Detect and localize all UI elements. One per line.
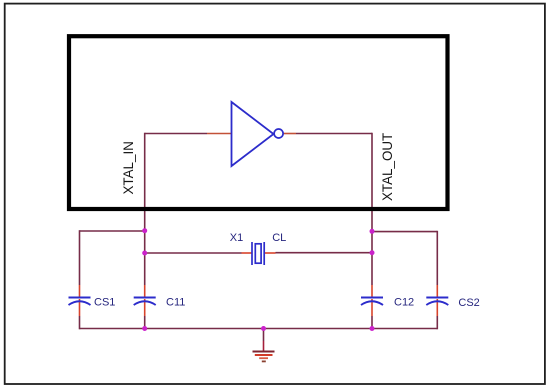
wire CS1 vertical lower: [79, 316, 81, 329]
capacitor CS2: [426, 298, 448, 306]
capacitor C12 pin top: [371, 285, 373, 297]
wire CS2 vertical lower: [436, 316, 438, 329]
capacitor C11: [134, 298, 156, 306]
wire XTAL_IN net: vertical drop from corner through chip edge to C11: [144, 133, 146, 285]
inverter U1 output pin stub: [283, 133, 296, 135]
svg-text:C12: C12: [394, 296, 414, 308]
junction at XTAL_IN / crystal wire: [142, 251, 147, 256]
capacitor CS2 pin top: [436, 285, 438, 297]
svg-text:X1: X1: [230, 232, 243, 244]
wire branch to CS2 top: [372, 231, 437, 233]
capacitor C11 pin top: [144, 285, 146, 297]
capacitor CS1: [69, 298, 91, 306]
wire XTAL_IN net: horizontal from left corner to inverter input: [145, 133, 207, 135]
crystal X1 pin right: [265, 252, 276, 254]
svg-text:XTAL_IN: XTAL_IN: [121, 141, 136, 194]
junction at C11 / bottom bus: [142, 326, 147, 331]
wire crystal right: [276, 252, 373, 254]
wire crystal left: [145, 252, 242, 254]
wire XTAL_OUT net: vertical drop from corner through chip edge to C12: [371, 133, 373, 285]
crystal X1 pin left: [242, 252, 253, 254]
junction at XTAL_OUT / CS2 branch: [370, 229, 375, 234]
wire bottom bus: [80, 328, 438, 330]
wire XTAL_OUT net: horizontal from inverter output to right corner: [296, 133, 372, 135]
svg-text:CL: CL: [272, 232, 286, 244]
junction at ground / bottom bus: [261, 326, 266, 331]
chip boundary box: [69, 36, 448, 209]
inverter U1 input pin stub: [207, 133, 232, 135]
junction at XTAL_IN / CS1 branch: [142, 228, 147, 233]
capacitor CS2 pin bottom: [436, 299, 438, 316]
capacitor CS1 pin top: [79, 285, 81, 297]
wire branch to CS1 top: [80, 230, 145, 232]
wire CS1 vertical upper: [79, 230, 81, 285]
capacitor C12 pin bottom: [371, 299, 373, 316]
capacitor C12: [361, 298, 383, 306]
wire ground stub: [263, 329, 265, 342]
svg-text:C11: C11: [166, 296, 185, 308]
wire C12 vertical lower: [371, 316, 373, 329]
wire CS2 vertical upper: [436, 231, 438, 285]
capacitor CS1 pin bottom: [79, 299, 81, 316]
svg-text:CS1: CS1: [94, 296, 115, 308]
capacitor C11 pin bottom: [144, 299, 146, 316]
junction at C12 / bottom bus: [370, 326, 375, 331]
svg-text:XTAL_OUT: XTAL_OUT: [380, 133, 395, 201]
wire C11 vertical lower: [144, 316, 146, 329]
crystal X1: [252, 242, 264, 265]
svg-text:CS2: CS2: [458, 297, 479, 309]
inverter U1: [232, 102, 284, 166]
junction at XTAL_OUT / crystal wire: [370, 250, 375, 255]
ground: [253, 352, 275, 362]
